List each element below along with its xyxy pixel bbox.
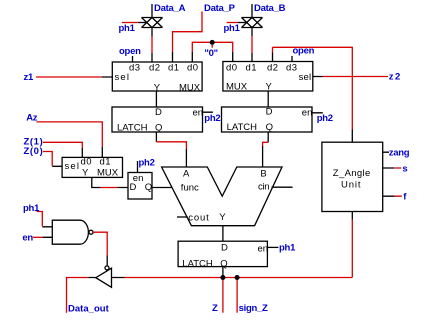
svg-text:d3: d3 bbox=[286, 62, 297, 73]
svg-text:en: en bbox=[258, 243, 269, 254]
svg-text:d2: d2 bbox=[149, 62, 160, 73]
svg-text:d0: d0 bbox=[226, 62, 237, 73]
svg-text:D: D bbox=[266, 106, 273, 117]
svg-text:d2: d2 bbox=[267, 62, 278, 73]
svg-text:z1: z1 bbox=[24, 72, 35, 83]
svg-text:Y: Y bbox=[219, 212, 226, 223]
svg-text:LATCH: LATCH bbox=[227, 122, 258, 133]
svg-text:MUX: MUX bbox=[179, 82, 201, 93]
svg-text:LATCH: LATCH bbox=[182, 258, 213, 269]
svg-text:sign_Z: sign_Z bbox=[239, 303, 268, 314]
svg-text:ph1: ph1 bbox=[23, 203, 40, 214]
svg-text:MUX: MUX bbox=[97, 167, 119, 178]
svg-text:func: func bbox=[181, 183, 199, 194]
svg-text:open: open bbox=[293, 46, 315, 57]
svg-text:ph1: ph1 bbox=[224, 23, 241, 34]
svg-text:Q: Q bbox=[220, 258, 227, 269]
svg-text:Data_out: Data_out bbox=[68, 303, 110, 314]
svg-text:A: A bbox=[183, 168, 190, 179]
svg-text:ph2: ph2 bbox=[317, 113, 333, 124]
svg-text:ph1: ph1 bbox=[279, 243, 296, 254]
svg-text:Q: Q bbox=[155, 122, 162, 133]
svg-text:Data_A: Data_A bbox=[154, 3, 186, 14]
svg-text:ph2: ph2 bbox=[139, 158, 155, 169]
svg-text:Unit: Unit bbox=[341, 180, 361, 191]
svg-text:ph1: ph1 bbox=[119, 23, 136, 34]
svg-text:zang: zang bbox=[389, 147, 410, 158]
svg-text:z2: z2 bbox=[389, 72, 400, 83]
svg-text:Y: Y bbox=[82, 167, 89, 178]
svg-text:open: open bbox=[119, 46, 141, 57]
svg-text:d0: d0 bbox=[187, 62, 198, 73]
svg-text:Y: Y bbox=[266, 81, 273, 92]
svg-text:ph2: ph2 bbox=[204, 113, 220, 124]
svg-text:d3: d3 bbox=[129, 62, 140, 73]
svg-text:d1: d1 bbox=[100, 156, 111, 167]
svg-text:MUX: MUX bbox=[226, 81, 248, 92]
svg-text:Z(0): Z(0) bbox=[24, 146, 43, 157]
svg-text:Y: Y bbox=[154, 82, 161, 93]
svg-text:Data_B: Data_B bbox=[254, 3, 286, 14]
svg-text:en: en bbox=[193, 107, 204, 118]
svg-text:cout: cout bbox=[188, 213, 209, 224]
svg-text:D: D bbox=[221, 242, 228, 253]
svg-text:B: B bbox=[260, 168, 266, 179]
svg-text:Q: Q bbox=[266, 122, 273, 133]
svg-text:LATCH: LATCH bbox=[117, 122, 148, 133]
svg-text:D: D bbox=[155, 107, 162, 118]
svg-text:sel: sel bbox=[115, 72, 130, 83]
svg-text:D: D bbox=[130, 182, 137, 193]
svg-text:en: en bbox=[22, 233, 33, 244]
svg-text:Q: Q bbox=[145, 182, 152, 193]
svg-text:en: en bbox=[302, 107, 313, 118]
svg-text:Z: Z bbox=[212, 303, 218, 314]
svg-text:"0": "0" bbox=[204, 48, 218, 59]
svg-text:sel: sel bbox=[65, 161, 80, 172]
svg-text:s: s bbox=[402, 164, 407, 175]
svg-text:d0: d0 bbox=[81, 156, 92, 167]
svg-text:d1: d1 bbox=[168, 62, 179, 73]
svg-text:Data_P: Data_P bbox=[204, 3, 236, 14]
svg-text:sel: sel bbox=[299, 72, 312, 83]
svg-text:d1: d1 bbox=[246, 62, 257, 73]
svg-text:Az: Az bbox=[26, 113, 38, 124]
svg-text:cin: cin bbox=[258, 182, 270, 193]
svg-text:Z_Angle: Z_Angle bbox=[333, 168, 371, 179]
